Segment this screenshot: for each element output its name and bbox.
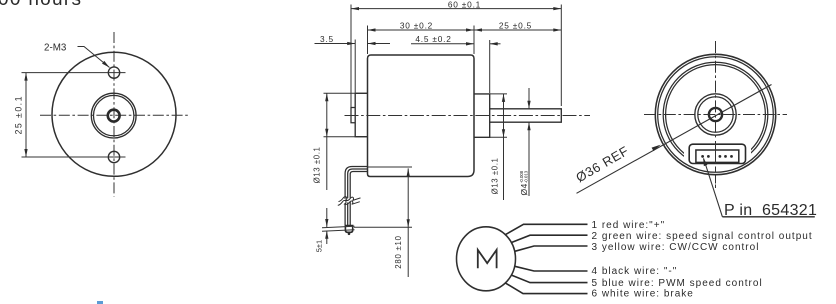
wire 3 [350,172,367,226]
dimension dia13 left [324,93,368,190]
wire labels [592,220,813,300]
mounting boss inner ring [94,95,134,135]
connector pins [701,155,704,158]
dimension dia13 right [490,94,507,200]
rear inner ring pair (clipped at connector) [663,62,768,167]
svg-text:60 ±0.1: 60 ±0.1 [448,0,481,10]
svg-text:5 blue wire: PWM speed control: 5 blue wire: PWM speed control [592,278,763,289]
extension line through top hole [22,72,126,74]
svg-text:Ø4: Ø4 [519,183,529,195]
5+-1 extension line lower [322,230,355,232]
wire 4 black [515,266,588,271]
dia36 arrowhead [652,145,661,151]
wire 5 blue [512,275,588,283]
svg-text:25 ±0.5: 25 ±0.5 [499,20,532,30]
ext line shaft tip [560,5,562,107]
dia36 leader line [577,85,772,194]
dimension 280 +-10 [354,167,412,277]
front boss [474,94,490,137]
wire 2 green [512,235,588,242]
svg-text:P in 654321: P in 654321 [724,202,817,219]
ext line boss top left [324,92,368,94]
wire break squiggle upper [339,197,361,202]
centerline below connector [715,167,717,189]
wire 3 yellow [515,246,588,251]
svg-text:3.5: 3.5 [320,34,334,44]
connector housing (white fill covers rings) [689,144,745,163]
dimension 3.5 [315,40,391,93]
shaft [490,109,562,122]
wire break white gap [338,196,361,205]
wire 6 white [505,283,587,294]
horizontal centerline rear [644,114,787,116]
ferrule tip dot [348,233,351,236]
blue artifact bottom left [97,301,103,304]
rear boss inner [698,97,733,132]
rear cap outer circle [655,54,775,174]
dimension 30 +-0.2 [368,26,475,55]
rear shaft hole (thick) [709,108,722,121]
svg-text:280 ±10: 280 ±10 [394,235,403,268]
vertical centerline [113,32,115,197]
svg-text:2-M3: 2-M3 [44,43,67,54]
svg-text:00 hours: 00 hours [0,0,82,10]
mounting boss outer ring [91,93,136,138]
motor outline circle (front view) [52,52,176,176]
motor body [368,55,475,177]
rear boss outer [695,94,736,135]
extension line through bottom hole [22,156,126,158]
rear cap second circle [658,57,774,173]
wire 2 [348,169,368,226]
svg-text:Ø13 ±0.1: Ø13 ±0.1 [491,158,500,195]
5+-1 extension line upper [322,226,355,228]
ext line rear (60) [350,5,352,108]
ext line boss bottom right [490,136,507,138]
horizontal centerline (axis) [345,115,591,117]
dimension 5+-1 [326,208,328,244]
wire break squiggle lower [338,200,360,205]
M3 hole top [108,67,119,78]
ext line wire exit [368,166,412,168]
svg-text:5±1: 5±1 [315,240,324,252]
dimension 60 +-0.1 [351,5,561,108]
ext line front boss face [489,40,491,93]
motor symbol circle [457,227,516,291]
svg-text:3 yellow wire: CW/CCW control: 3 yellow wire: CW/CCW control [592,242,760,253]
svg-text:2 green wire: speed signal con: 2 green wire: speed signal control outpu… [592,231,813,242]
svg-text:30 ±0.2: 30 ±0.2 [400,20,433,30]
ext line boss top right [490,93,507,95]
ext line boss bottom left [324,136,368,138]
centerline through connector [715,141,717,164]
dimension line 25 +-0.1 [25,73,27,157]
svg-text:4.5 ±0.2: 4.5 ±0.2 [415,34,451,44]
svg-text:6 white wire: brake: 6 white wire: brake [592,289,694,300]
svg-text:1 red wire:"+": 1 red wire:"+" [592,220,666,231]
ext line body right face [473,26,475,55]
ext line rear boss face [354,40,356,93]
ext line wire end [354,226,412,228]
wire end ferrule [345,226,352,233]
P in 654321 underline [722,216,814,218]
motor symbol letter M [478,250,497,268]
ext line body left face [367,26,369,55]
svg-text:4 black wire: "-": 4 black wire: "-" [592,266,678,277]
M3 hole bottom [108,151,119,162]
connector inner body [696,150,739,162]
wire 1 [345,167,367,226]
dimension 4.5 +-0.2 [411,40,501,93]
svg-text:Ø13 ±0.1: Ø13 ±0.1 [313,147,322,184]
vertical centerline rear [715,41,717,140]
wire 1 red [505,224,587,235]
svg-text:-0.013: -0.013 [524,170,529,183]
rear shaft stub [351,108,355,123]
dimension dia4 shaft [528,88,530,196]
rear boss [355,93,367,136]
P in 654321 leader [704,159,723,217]
horizontal centerline [40,114,190,116]
svg-text:25 ±0.1: 25 ±0.1 [14,95,24,134]
leader for 2-M3 [78,47,110,68]
dimension 25 +-0.5 [474,29,561,31]
shaft hole (thick) [108,110,120,122]
